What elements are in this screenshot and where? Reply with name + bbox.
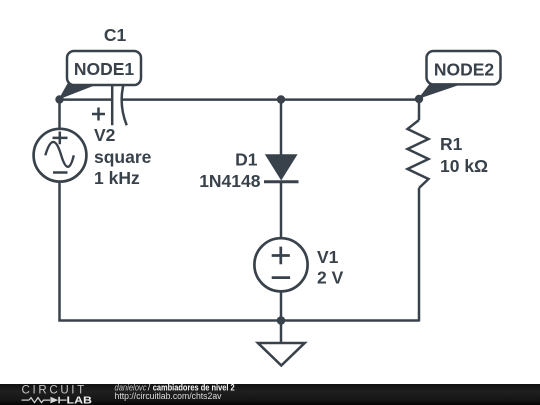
svg-text:LAB: LAB [67, 394, 93, 405]
diode D1 cathode bar [264, 180, 299, 183]
wire top rail right of C1 [121, 98, 419, 101]
resistor R1 zigzag [408, 120, 429, 188]
source V2 circle [34, 129, 87, 182]
source V2 sine wave [45, 142, 74, 167]
junction dot bottom middle [277, 316, 286, 325]
logo diode triangle [50, 397, 58, 404]
wire bottom rail [58, 319, 419, 322]
svg-text:1 kHz: 1 kHz [94, 168, 140, 188]
ground symbol [258, 343, 305, 366]
wire R1 bottom lead [418, 188, 421, 322]
source V1 minus sign [272, 276, 290, 279]
svg-text:NODE1: NODE1 [74, 59, 135, 79]
wire middle branch upper [280, 100, 283, 156]
svg-text:V2: V2 [94, 125, 116, 145]
node NODE1 pointer wedge [59, 84, 98, 100]
wire V2 bottom lead [58, 182, 61, 322]
wire top rail left of C1 [60, 98, 112, 101]
wire ground stub [280, 321, 283, 344]
capacitor C1 curved plate [122, 75, 127, 126]
node NODE1 callout box [67, 51, 141, 85]
node dot NODE1 [55, 95, 63, 103]
svg-text:1N4148: 1N4148 [199, 171, 261, 191]
source V2 minus sign [53, 171, 68, 174]
svg-text:NODE2: NODE2 [434, 60, 495, 80]
svg-text:http://circuitlab.com/chts2av: http://circuitlab.com/chts2av [115, 391, 222, 401]
svg-text:square: square [94, 147, 152, 167]
wire D1 to V1 [280, 182, 283, 238]
svg-text:2 V: 2 V [317, 268, 344, 288]
svg-text:C1: C1 [104, 25, 127, 45]
junction dot top middle [277, 95, 285, 103]
svg-text:10 kΩ: 10 kΩ [440, 156, 488, 176]
wire V1 to bottom rail [280, 291, 283, 320]
diode D1 triangle [265, 154, 298, 180]
logo waveform lead left [22, 399, 30, 401]
logo diode bar [58, 397, 60, 404]
logo waveform zigzag [29, 398, 50, 403]
svg-text:R1: R1 [440, 134, 463, 154]
node NODE2 callout box [427, 51, 501, 84]
svg-text:V1: V1 [317, 247, 339, 267]
capacitor C1 straight plate [111, 74, 114, 125]
capacitor C1 polarity plus [92, 108, 105, 121]
source V1 circle [254, 238, 307, 291]
node dot NODE2 [415, 95, 423, 103]
footer bar [0, 384, 540, 405]
logo diode lead [60, 399, 67, 401]
svg-text:D1: D1 [235, 150, 258, 170]
wire R1 top lead [418, 100, 421, 121]
wire V2 top lead [58, 100, 61, 129]
node NODE2 pointer wedge [418, 85, 458, 100]
source V2 plus sign [53, 132, 68, 145]
source V1 plus sign [272, 247, 290, 265]
